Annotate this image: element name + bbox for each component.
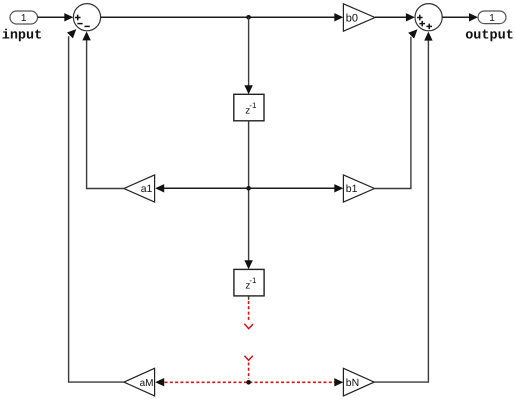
svg-text:-1: -1 <box>249 101 257 110</box>
svg-text:b1: b1 <box>346 183 358 195</box>
arrowhead into a1 <box>155 184 164 192</box>
svg-text:a1: a1 <box>141 183 153 195</box>
gain aM (left-pointing triangle) <box>124 368 155 396</box>
red open arrowhead (down) <box>244 324 253 329</box>
outport block "1" (output) <box>478 11 506 24</box>
wire top node down to delay1 <box>248 17 250 87</box>
sum S2 sign + (left-bottom) <box>419 21 425 27</box>
angled arrowhead into sum2 bottom-left <box>408 29 417 38</box>
black arrowhead into bN <box>334 378 343 386</box>
sum block S2 (circle) <box>415 4 442 31</box>
svg-text:b0: b0 <box>346 13 358 25</box>
black stub below delay2 <box>248 296 250 300</box>
arrowhead into sum2 <box>406 13 415 21</box>
wire delay1 down to delay2 <box>248 121 250 262</box>
wire aM to sum1 (left then up) <box>69 36 124 382</box>
arrowhead into delay1 <box>244 85 252 94</box>
svg-text:aM: aM <box>140 378 154 389</box>
wire a1 to sum1 (left then up) <box>87 40 124 189</box>
svg-text:-1: -1 <box>249 276 257 285</box>
wire b1 to sum2 (right then up) <box>375 37 411 189</box>
svg-text:output: output <box>465 29 514 44</box>
angled arrowhead into sum1 bottom-left <box>67 29 76 38</box>
inport block "1" (input) <box>10 11 38 24</box>
arrowhead up into sum1 bottom <box>82 31 90 40</box>
wire bN to sum2 (right then up) <box>374 40 428 382</box>
arrowhead into outport <box>469 13 478 21</box>
sum S1 sign - (left-bottom) <box>77 23 82 25</box>
red dashed line aM to bN <box>165 381 336 383</box>
arrowhead into sum1 <box>64 13 73 21</box>
junction dot bottom node <box>246 380 251 385</box>
wire b0 to sum2 <box>375 16 407 18</box>
red open arrowhead (V above bottom node) <box>244 356 252 361</box>
gain a1 (left-pointing triangle) <box>124 175 155 202</box>
sum S2 sign + (bottom) <box>426 24 432 30</box>
junction dot top node <box>246 15 251 20</box>
svg-text:bN: bN <box>346 377 359 389</box>
sum S2 sign + (left) <box>417 15 423 21</box>
arrowhead into delay2 <box>244 260 252 269</box>
svg-text:1: 1 <box>489 13 495 24</box>
sum S1 sign - (bottom) <box>85 25 90 27</box>
delay block z^-1 (second) <box>234 269 264 296</box>
wire sum1 to gain b0 <box>101 16 336 18</box>
arrowhead into b0 <box>334 13 343 21</box>
wire input to sum1 <box>38 16 67 18</box>
black arrowhead into aM <box>155 378 164 386</box>
red dashed continuation stem (up from bottom node) <box>248 363 250 380</box>
sum block S1 (circle) <box>73 4 100 31</box>
gain b1 (right-pointing triangle) <box>343 175 374 202</box>
wire middle node to b1 <box>249 187 336 189</box>
wire middle node to a1 <box>164 187 249 189</box>
wire sum2 to outport <box>442 16 470 18</box>
svg-text:input: input <box>2 28 43 43</box>
gain bN (right-pointing triangle) <box>343 368 374 396</box>
sum S1 sign + <box>75 15 81 21</box>
svg-text:1: 1 <box>21 13 27 24</box>
junction dot middle node <box>246 186 251 191</box>
red dashed continuation line (down) <box>248 301 250 322</box>
arrowhead up into sum2 bottom <box>424 32 432 41</box>
arrowhead into b1 <box>334 184 343 192</box>
gain b0 (triangle) <box>343 4 375 31</box>
delay block z^-1 (first) <box>234 94 264 121</box>
